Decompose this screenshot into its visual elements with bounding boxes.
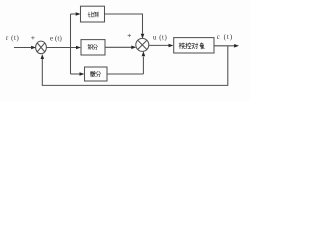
label plus sign at S1 (31, 36, 34, 39)
text 积 (integral block char 1) (88, 44, 93, 49)
text 微 (derivative block char 1) (90, 71, 95, 76)
wire integral output to S2 left (105, 46, 132, 48)
wire plant output c(t) (214, 45, 235, 47)
svg-text:c (t): c (t) (217, 34, 233, 41)
arrowhead into integral block (76, 46, 81, 50)
text 控 (plant block char 2) (186, 43, 192, 49)
wire proportional output to summing junction S2 top (105, 14, 143, 34)
derivative block (微分) box (85, 67, 108, 81)
arrowhead feedback into S1 bottom (41, 54, 45, 59)
arrowhead output c(t) (234, 44, 239, 48)
arrowhead into proportional block (76, 12, 81, 16)
svg-text:e (t): e (t) (50, 35, 62, 42)
arrowhead into plant block (169, 44, 174, 48)
summing junction S1 (36, 41, 47, 54)
proportional block (比例) box (81, 6, 105, 22)
text 象 (plant block char 4) (200, 43, 205, 49)
wire branch to derivative block (71, 73, 81, 75)
arrowhead into S1 (31, 46, 36, 50)
arrowhead into derivative block (80, 72, 85, 76)
text 被 (plant block char 1) (179, 43, 185, 49)
arrowhead into S2 from top (141, 34, 145, 39)
integral block (积分) box (81, 40, 105, 55)
text 例 (proportional block char 2) (93, 12, 98, 17)
plant block (被控对象) box (174, 38, 214, 53)
svg-text:u (t): u (t) (153, 35, 167, 42)
text 分 (derivative block char 2) (96, 71, 101, 76)
wire u(t) from S2 to plant block (149, 44, 169, 46)
arrowhead into S2 from bottom (142, 51, 146, 56)
wire derivative output to S2 bottom (107, 57, 143, 74)
wire feedback loop (42, 46, 228, 86)
glyphs: CJK characters drawn as strokes (88, 12, 204, 77)
text 对 (plant block char 3) (192, 43, 198, 49)
summing junction S2 (136, 38, 149, 51)
wire branch to proportional block (71, 13, 77, 15)
wire e(t) from S1 to branch node and integral block (46, 47, 76, 49)
label plus sign at S2 (128, 34, 131, 37)
node branch vertical wire (70, 14, 72, 74)
arrowhead into S2 from left (131, 46, 136, 50)
wire input r(t) to summing junction S1 (14, 47, 31, 49)
svg-text:r (t): r (t) (6, 35, 19, 42)
text 分 (integral block char 2) (93, 44, 98, 49)
text 比 (proportional block char 1) (88, 12, 93, 17)
